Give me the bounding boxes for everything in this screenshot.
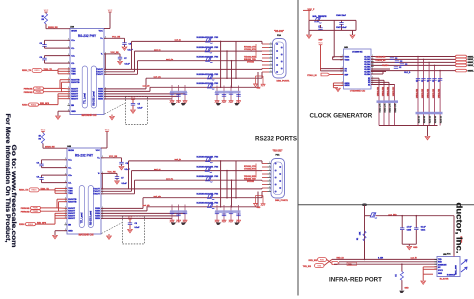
port RXD1 input connector (19, 188, 39, 192)
svg-text:HSDL-3000: HSDL-3000 (456, 265, 458, 275)
svg-text:C5: C5 (138, 103, 140, 105)
svg-text:UNICLK12: UNICLK12 (383, 87, 385, 96)
wire row1 to DB9 (132, 40, 263, 42)
svg-text:C5: C5 (135, 223, 137, 225)
ferrite bead FB3 BLM18AG221SN1 (197, 175, 220, 182)
resistor R48B 1K (38, 133, 44, 144)
svg-text:GND2: GND2 (345, 85, 350, 87)
svg-text:INFRA-RED PORT: INFRA-RED PORT (329, 277, 382, 284)
svg-text:uart_cts: uart_cts (154, 195, 161, 198)
svg-text:C2: C2 (433, 80, 435, 82)
divider line horizontal (298, 204, 474, 206)
port PWRON2 connector (21, 210, 41, 214)
resistor R28B 1K (41, 14, 47, 25)
svg-text:R5IN: R5IN (98, 99, 103, 101)
resistor R247 1K (396, 263, 404, 290)
svg-text:R245 33: R245 33 (440, 116, 443, 123)
port PWRON2 connector (24, 90, 44, 94)
svg-text:uart_rts: uart_rts (166, 58, 173, 61)
wire R4IN (104, 95, 179, 97)
connector P2 DB9 (268, 159, 285, 199)
svg-text:VCC: VCC (105, 129, 110, 131)
svg-text:32KHZ_U1: 32KHZ_U1 (468, 59, 474, 61)
svg-text:RXD2: RXD2 (31, 104, 36, 106)
wire IR VCC rail (365, 215, 371, 217)
svg-text:ductor, Inc.: ductor, Inc. (455, 203, 465, 254)
svg-text:GND: GND (438, 273, 443, 275)
svg-text:T3IN: T3IN (71, 74, 76, 76)
ground (DB9 shell) (253, 196, 265, 210)
net labels RS232 signals (244, 166, 256, 183)
svg-text:PWRON1: PWRON1 (24, 88, 34, 90)
svg-text:RXD2: RXD2 (22, 105, 28, 107)
svg-text:X4: X4 (368, 83, 370, 86)
svg-text:BLM18AG221SN1 FB3: BLM18AG221SN1 FB3 (197, 82, 220, 85)
capacitor C6 charge pump (39, 40, 70, 48)
svg-text:uart_cts: uart_cts (154, 75, 161, 78)
svg-text:1: 1 (269, 180, 270, 182)
ferrite bead FB2 BLM18AG221SN1 (197, 46, 220, 53)
svg-text:1: 1 (269, 173, 270, 175)
note dashed box bypass cap (102, 216, 145, 244)
svg-text:1: 1 (270, 53, 271, 55)
wire T-IN bus (57, 69, 59, 74)
capacitor C248 (318, 25, 322, 30)
svg-text:C2-: C2- (71, 63, 75, 65)
wire row4 (143, 197, 262, 199)
svg-text:BLM18AG221SN1 FB3: BLM18AG221SN1 FB3 (197, 46, 220, 49)
svg-text:1: 1 (270, 67, 271, 69)
ferrite bead FB4 BLM18AG221SN1 (197, 73, 220, 80)
svg-text:VCC_RE: VCC_RE (112, 37, 121, 39)
svg-text:VCC2: VCC2 (438, 270, 443, 272)
svg-text:C2-: C2- (68, 182, 72, 184)
port XTAL1 IN connector (307, 73, 343, 77)
ferrite bead FB3 BLM18AG221SN1 (197, 56, 220, 63)
svg-text:C245: C245 (407, 228, 412, 231)
port RXD2 connector (19, 223, 35, 227)
wire T-IN bus (54, 188, 56, 193)
svg-text:uart_tx: uart_tx (175, 39, 182, 42)
ground (left) (307, 30, 312, 38)
IC U50 IrDA transceiver (434, 254, 460, 276)
svg-text:BLM18AG221SN1 FB3: BLM18AG221SN1 FB3 (197, 156, 220, 159)
svg-text:C246 22uF: C246 22uF (336, 14, 347, 17)
svg-text:UNICLK12: UNICLK12 (433, 89, 435, 98)
svg-text:RXD1_TX: RXD1_TX (19, 190, 29, 192)
wire cap bottoms (402, 243, 416, 245)
svg-text:C2: C2 (399, 67, 401, 69)
svg-text:1: 1 (270, 57, 271, 59)
svg-text:TXD_IR2: TXD_IR2 (303, 266, 312, 268)
divider line vertical (297, 0, 299, 296)
svg-text:C247 0.1uF: C247 0.1uF (336, 26, 347, 29)
svg-text:PWRON1: PWRON1 (21, 208, 31, 210)
wire vertical bus (220, 161, 222, 207)
svg-text:P2A: P2A (277, 34, 282, 37)
svg-text:T3OUT: T3OUT (96, 74, 103, 76)
capacitor C8 bypass with ground (101, 156, 131, 171)
svg-text:CY2309NZ CAI: CY2309NZ CAI (350, 90, 366, 93)
capacitor C245 4.7uF (400, 215, 412, 244)
svg-text:BLM18AG221SN1 FB3: BLM18AG221SN1 FB3 (197, 36, 220, 39)
svg-text:SD/MODE: SD/MODE (438, 264, 447, 266)
svg-text:VCC: VCC (44, 10, 49, 12)
svg-text:uart_rts: uart_rts (166, 177, 173, 180)
svg-text:C1-: C1- (68, 167, 72, 169)
wire row4 (146, 77, 262, 79)
wire SHDN (42, 144, 44, 149)
svg-text:VCC: VCC (99, 31, 104, 33)
ground (IC GND pin) (53, 231, 67, 239)
ground (right of IC) (107, 234, 112, 239)
svg-text:uart_dtr: uart_dtr (143, 85, 150, 88)
svg-text:CLKB4: CLKB4 (364, 73, 370, 76)
wire crossover (324, 258, 357, 266)
svg-text:T3IN: T3IN (68, 193, 73, 195)
IC U28 RS-232 PHY transceiver MAX3245 (67, 26, 106, 114)
svg-text:R5OUT: R5OUT (71, 99, 79, 101)
svg-text:uart_IR: uart_IR (411, 256, 418, 259)
wire row5 (150, 86, 258, 88)
wire row1 to DB9 (129, 160, 263, 162)
port clock output 68MHZ_U2 (456, 61, 474, 64)
svg-text:UNICLK12: UNICLK12 (428, 89, 430, 98)
svg-text:1: 1 (270, 64, 271, 66)
decoupling capacitor cluster A (170, 205, 188, 225)
svg-text:TTL Level: TTL Level (85, 93, 87, 104)
svg-text:RS-232 Level: RS-232 Level (94, 91, 96, 106)
svg-text:R245 33: R245 33 (429, 116, 432, 123)
ground (resistor banks) (425, 137, 430, 140)
svg-text:GND: GND (71, 111, 76, 113)
connector P2 DB9 (269, 39, 286, 79)
svg-text:1: 1 (372, 60, 373, 62)
svg-text:R5OUT: R5OUT (68, 218, 76, 220)
note dashed box bypass cap (105, 97, 148, 125)
junction on divider (362, 203, 367, 206)
wire V- rail (104, 54, 106, 70)
IR LED arrows (461, 260, 467, 272)
svg-text:DB9_PORT1: DB9_PORT1 (275, 200, 289, 202)
svg-text:C1-: C1- (71, 48, 75, 50)
wire row3 (135, 179, 263, 181)
svg-text:CLKB4: CLKB4 (382, 64, 389, 67)
wire TXD1 (42, 69, 58, 71)
port clock output 32KHZ_U2 (456, 64, 474, 67)
svg-text:uart_rx: uart_rx (154, 48, 161, 51)
svg-text:CLKA2_B2: CLKA2_B2 (376, 56, 386, 59)
svg-text:BLM18AG221SN1 FB3: BLM18AG221SN1 FB3 (197, 193, 220, 196)
ferrite bead FB1 BLM18AG221SN1 (197, 156, 220, 163)
svg-text:1: 1 (270, 46, 271, 48)
svg-text:2: 2 (68, 104, 69, 106)
net labels RS232 signals (244, 46, 256, 63)
wire SHDN (45, 24, 47, 29)
svg-text:VCC: VCC (96, 150, 101, 152)
svg-text:DB9_PORT1: DB9_PORT1 (277, 81, 291, 83)
svg-text:RXD2: RXD2 (19, 224, 25, 226)
svg-text:1: 1 (269, 190, 270, 192)
svg-text:1: 1 (269, 176, 270, 178)
port clock output 32KHZ_U1 (456, 58, 474, 61)
svg-text:CLKA3_B3: CLKA3_B3 (376, 59, 386, 62)
svg-text:C2: C2 (439, 80, 441, 82)
svg-text:C2: C2 (405, 64, 407, 66)
ground (right) (350, 30, 355, 38)
svg-text:MAX3245 CAI: MAX3245 CAI (79, 234, 94, 237)
wire VDD pins (333, 56, 344, 58)
ferrite bead FB5 BLM18AG221SN1 (197, 82, 220, 89)
ground (IR caps) (407, 246, 418, 249)
svg-text:RS-232 PHY: RS-232 PHY (75, 153, 94, 157)
svg-text:GND: GND (68, 231, 73, 233)
wire DB9 pin stubs (256, 161, 268, 207)
wire R3IN (101, 212, 185, 214)
resistor bank RN B (5 termination resistors with caps) (416, 56, 443, 126)
svg-text:RXD1_TX: RXD1_TX (22, 70, 32, 72)
power VCC_PORTS input (303, 9, 315, 21)
svg-text:RXD_GPS: RXD_GPS (37, 222, 47, 224)
wire DB9 pin stubs (256, 41, 269, 87)
wire R5IN (101, 217, 172, 219)
power VCC (left, via R) (41, 129, 46, 133)
svg-text:0_KR: 0_KR (378, 258, 384, 260)
net labels clock outputs (376, 56, 411, 74)
svg-text:UNICLK12: UNICLK12 (439, 89, 441, 98)
svg-text:R5IN: R5IN (95, 218, 100, 220)
wire row3 (138, 60, 263, 62)
IC U48 RS-232 PHY transceiver MAX3245 (64, 145, 103, 234)
wire ground rail (379, 125, 438, 127)
svg-text:PWR2: PWR2 (33, 211, 38, 213)
svg-text:V-: V- (101, 54, 103, 56)
svg-text:0.1uF: 0.1uF (125, 64, 131, 66)
svg-text:For More Information On This P: For More Information On This Product, (4, 114, 11, 243)
capacitor C8 bypass with ground (104, 37, 134, 52)
svg-text:R241 4.7K: R241 4.7K (384, 103, 387, 113)
capacitor C7 bypass with ground (104, 52, 131, 65)
svg-text:BLM18AG221SN1 FB3: BLM18AG221SN1 FB3 (197, 73, 220, 76)
resistor R246 10K (357, 231, 366, 241)
svg-text:VCC: VCC (41, 129, 46, 131)
svg-text:VCC: VCC (108, 10, 113, 12)
svg-text:R241 4.7K: R241 4.7K (394, 103, 397, 113)
ground (R247) (399, 288, 409, 293)
svg-text:P2A: P2A (275, 153, 280, 156)
capacitor C9 charge pump (36, 175, 67, 183)
svg-text:"RS-232": "RS-232" (274, 31, 284, 33)
wire RXD2 (39, 104, 59, 106)
wire S0 S1 (321, 68, 344, 70)
svg-text:0.1uF: 0.1uF (421, 227, 427, 229)
wire vertical bus (226, 171, 228, 198)
power VCC (right) (104, 10, 113, 29)
decoupling capacitor cluster B (215, 205, 241, 225)
svg-text:SHDN: SHDN (68, 150, 74, 152)
ground (IR IC) (421, 281, 426, 284)
wire row5 (147, 206, 258, 208)
svg-text:RS232 PORTS: RS232 PORTS (255, 136, 297, 143)
svg-text:C2: C2 (400, 61, 402, 63)
ferrite bead FB1 BLM18AG221SN1 (197, 36, 220, 43)
wire row2 (132, 170, 263, 172)
svg-text:GND: GND (405, 288, 410, 290)
decoupling capacitor cluster B (215, 86, 241, 106)
svg-text:S1: S1 (345, 71, 347, 73)
svg-text:MAX3245 CAI: MAX3245 CAI (82, 114, 97, 117)
svg-text:T3OUT: T3OUT (93, 194, 100, 196)
ground (right of IC) (110, 115, 115, 120)
svg-text:1: 1 (270, 60, 271, 62)
wire VCC vertical (364, 205, 366, 259)
svg-text:CLK_D: CLK_D (404, 72, 411, 74)
wire vertical bus (231, 180, 233, 207)
capacitor C series (clock) (390, 58, 408, 69)
wire V- rail (101, 173, 103, 189)
svg-text:BLM18AG221SN1 FB3: BLM18AG221SN1 FB3 (197, 56, 220, 59)
svg-text:4.7uF: 4.7uF (407, 226, 413, 229)
svg-text:1: 1 (269, 183, 270, 185)
power VCC to clock IC (318, 40, 323, 71)
svg-text:IR 3000 #0: IR 3000 #0 (447, 275, 455, 277)
power VCC (right) (101, 129, 110, 148)
svg-text:C2: C2 (395, 58, 397, 60)
svg-text:uart_rx: uart_rx (154, 168, 161, 171)
svg-text:R2: R2 (357, 238, 359, 240)
svg-text:VCC: VCC (318, 43, 323, 45)
svg-text:C2: C2 (417, 80, 419, 82)
svg-text:1: 1 (270, 50, 271, 52)
svg-text:SHDN_RE: SHDN_RE (45, 147, 55, 149)
port RXD_IR connector (309, 258, 327, 262)
svg-text:BLM18AG221SN1 FB3: BLM18AG221SN1 FB3 (197, 175, 220, 178)
ferrite bead FB2 BLM18AG221SN1 (197, 165, 220, 172)
svg-text:R2OUTB: R2OUTB (68, 202, 77, 204)
svg-text:PWR2: PWR2 (36, 92, 41, 94)
ferrite bead FB (IR) (370, 213, 397, 218)
wire R3IN (104, 93, 185, 95)
svg-text:68MHZ_U2: 68MHZ_U2 (468, 62, 474, 64)
svg-text:VCC_RE: VCC_RE (109, 156, 118, 158)
svg-text:VCC_RE: VCC_RE (108, 172, 117, 174)
svg-text:RXD_IR2: RXD_IR2 (309, 260, 318, 262)
svg-text:IR_XCVR: IR_XCVR (440, 279, 449, 281)
svg-text:R245 33: R245 33 (434, 116, 437, 123)
wire vertical bus (231, 61, 233, 88)
wire T1OUT long run (101, 188, 262, 190)
wire IC pin connections (423, 267, 437, 281)
svg-text:UNICLK12: UNICLK12 (388, 87, 390, 96)
wire IR data lines (332, 258, 437, 260)
svg-text:RS-232 Level: RS-232 Level (91, 210, 93, 225)
svg-text:uart_tx: uart_tx (175, 158, 182, 161)
svg-text:2: 2 (65, 223, 66, 225)
svg-text:V-: V- (98, 173, 100, 175)
svg-text:"RS-232": "RS-232" (273, 150, 283, 152)
svg-text:UNICLK12: UNICLK12 (393, 87, 395, 96)
port clock output 68MHZ_U3 (456, 69, 474, 72)
power VCC (left, via R) (44, 10, 49, 14)
capacitor C9 charge pump (39, 56, 70, 64)
svg-text:CTS232_RTS: CTS232_RTS (244, 49, 256, 51)
wire vertical bus (226, 51, 228, 78)
svg-text:PWRON2: PWRON2 (21, 212, 31, 214)
svg-text:CTS232_RTS: CTS232_RTS (244, 168, 256, 170)
ferrite bead L2 MUL_FERRITE (313, 16, 328, 23)
svg-text:CY2309 NZ: CY2309 NZ (352, 51, 363, 53)
svg-text:UNICLK12: UNICLK12 (378, 87, 380, 96)
wire T1OUT long run (104, 68, 262, 70)
resistor bank RN A (4 series resistors) (371, 78, 398, 125)
capacitor C6 charge pump (36, 160, 67, 168)
svg-text:UNICLK12: UNICLK12 (422, 89, 424, 98)
svg-text:R245 33: R245 33 (423, 116, 426, 123)
svg-text:RXD: RXD (320, 259, 325, 261)
svg-text:0.1uF: 0.1uF (138, 107, 144, 109)
port PWRON1 connector (21, 206, 41, 210)
svg-text:RXD_GPS: RXD_GPS (40, 103, 50, 105)
svg-text:68MHZ_U3: 68MHZ_U3 (468, 70, 474, 72)
svg-text:PWRON2: PWRON2 (24, 92, 34, 94)
svg-text:RS-232 PHY: RS-232 PHY (78, 34, 97, 38)
wire VCC stub (453, 255, 455, 257)
svg-text:GND: GND (413, 247, 418, 249)
ground (DB9 shell) (253, 76, 265, 90)
svg-text:0.1uF: 0.1uF (122, 183, 128, 185)
capacitor C7 bypass with ground (101, 172, 128, 185)
svg-text:C2: C2 (428, 80, 430, 82)
svg-text:1: 1 (269, 187, 270, 189)
svg-text:SHDN: SHDN (71, 31, 77, 33)
svg-text:0.1uF: 0.1uF (135, 227, 141, 229)
svg-text:TTL Level: TTL Level (82, 212, 84, 223)
svg-text:CLOCK GENERATOR: CLOCK GENERATOR (310, 113, 373, 120)
svg-text:R2OUTB: R2OUTB (71, 82, 80, 84)
wire vertical bus (235, 41, 237, 78)
ferrite bead FB4 BLM18AG221SN1 (197, 193, 220, 200)
svg-text:VCC_RE: VCC_RE (111, 52, 120, 54)
wire RXD2 (36, 223, 56, 225)
ground (IC GND pin) (56, 111, 70, 119)
svg-text:DTR232: DTR232 (247, 181, 254, 183)
ferrite bead FB5 BLM18AG221SN1 (197, 202, 220, 209)
svg-text:R245 33: R245 33 (418, 116, 421, 123)
svg-text:1: 1 (270, 71, 271, 73)
svg-text:SHDN_RE: SHDN_RE (48, 27, 58, 29)
port TXD_IR connector (303, 264, 324, 269)
svg-text:C2: C2 (422, 80, 424, 82)
wire R5IN (104, 98, 172, 100)
svg-text:0.1uF: 0.1uF (125, 169, 131, 171)
svg-text:DTR232: DTR232 (247, 61, 254, 63)
svg-text:R241 4.7K: R241 4.7K (379, 103, 382, 113)
wire vertical bus (235, 161, 237, 198)
wire TXD1 (39, 189, 55, 191)
wire R4IN (101, 215, 179, 217)
svg-text:BLM18AG221SN1 FB3: BLM18AG221SN1 FB3 (197, 165, 220, 168)
svg-text:VDD1: VDD1 (345, 57, 350, 59)
svg-text:UNICLK12: UNICLK12 (417, 89, 419, 98)
port RXD2 connector (22, 103, 38, 107)
svg-text:1: 1 (270, 43, 271, 45)
port RXD1 input connector (22, 68, 42, 72)
svg-text:1: 1 (269, 169, 270, 171)
svg-text:1: 1 (269, 162, 270, 164)
svg-text:uart_dtr: uart_dtr (143, 204, 150, 207)
capacitor C244 0.1uF (414, 215, 426, 244)
wire to R-OUTB pins (44, 87, 61, 89)
